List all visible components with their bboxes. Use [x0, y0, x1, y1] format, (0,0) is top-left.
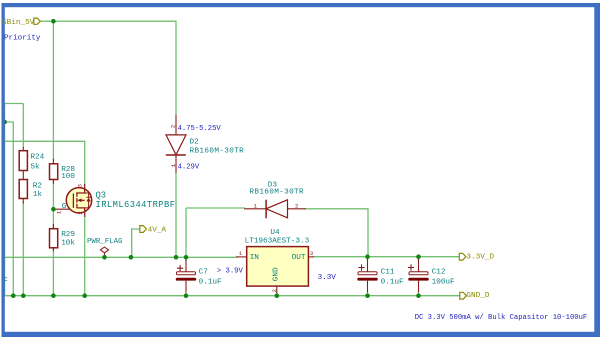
- svg-text:LT1963AEST-3.3: LT1963AEST-3.3: [245, 237, 310, 245]
- svg-text:3: 3: [310, 250, 314, 257]
- svg-text:Priority: Priority: [4, 34, 41, 42]
- svg-text:5k: 5k: [30, 164, 40, 172]
- svg-text:4.29V: 4.29V: [178, 164, 200, 172]
- svg-text:D2: D2: [190, 138, 200, 146]
- svg-text:3.3V: 3.3V: [318, 274, 337, 282]
- svg-text:1k: 1k: [33, 191, 43, 199]
- svg-text:G: G: [62, 203, 67, 211]
- svg-text:GND_D: GND_D: [466, 292, 489, 300]
- svg-text:RB160M-30TR: RB160M-30TR: [190, 147, 245, 155]
- svg-text:3: 3: [76, 183, 83, 187]
- svg-text:100: 100: [61, 173, 75, 181]
- svg-text:> 3.9V: > 3.9V: [217, 268, 244, 276]
- svg-text:0.1uF: 0.1uF: [199, 278, 222, 286]
- svg-text:IRLML6344TRPBF: IRLML6344TRPBF: [96, 200, 176, 210]
- svg-text:2: 2: [271, 289, 278, 293]
- svg-text:R2: R2: [33, 183, 43, 191]
- svg-text:OUT: OUT: [292, 254, 306, 262]
- svg-text:GND: GND: [273, 267, 281, 281]
- svg-text:1: 1: [239, 250, 243, 257]
- svg-text:PWR_FLAG: PWR_FLAG: [87, 238, 122, 246]
- svg-text:100uF: 100uF: [432, 278, 455, 286]
- svg-text:3.3V_D: 3.3V_D: [466, 253, 494, 261]
- svg-text:2: 2: [295, 202, 299, 209]
- svg-text:0.1uF: 0.1uF: [381, 278, 404, 286]
- svg-text:C11: C11: [381, 268, 395, 276]
- svg-text:SBin_5V: SBin_5V: [2, 19, 35, 27]
- svg-text:2: 2: [77, 211, 84, 215]
- svg-text:4V_A: 4V_A: [148, 227, 167, 235]
- svg-text:DC 3.3V 500mA w/ Bulk Capasito: DC 3.3V 500mA w/ Bulk Capasitor 10-100uF: [415, 314, 588, 322]
- svg-text:4.75-5.25V: 4.75-5.25V: [178, 125, 222, 133]
- svg-text:RB160M-30TR: RB160M-30TR: [249, 189, 304, 197]
- svg-text:U4: U4: [270, 229, 280, 237]
- svg-text:2: 2: [170, 124, 177, 128]
- svg-text:1: 1: [253, 202, 257, 209]
- svg-text:10k: 10k: [61, 240, 75, 248]
- svg-text:1: 1: [170, 163, 177, 167]
- svg-text:R29: R29: [61, 231, 75, 239]
- svg-text:1: 1: [56, 210, 63, 214]
- svg-text:R24: R24: [30, 154, 44, 162]
- svg-text:C12: C12: [432, 268, 446, 276]
- svg-text:IN: IN: [250, 254, 259, 262]
- svg-text:C7: C7: [199, 268, 209, 276]
